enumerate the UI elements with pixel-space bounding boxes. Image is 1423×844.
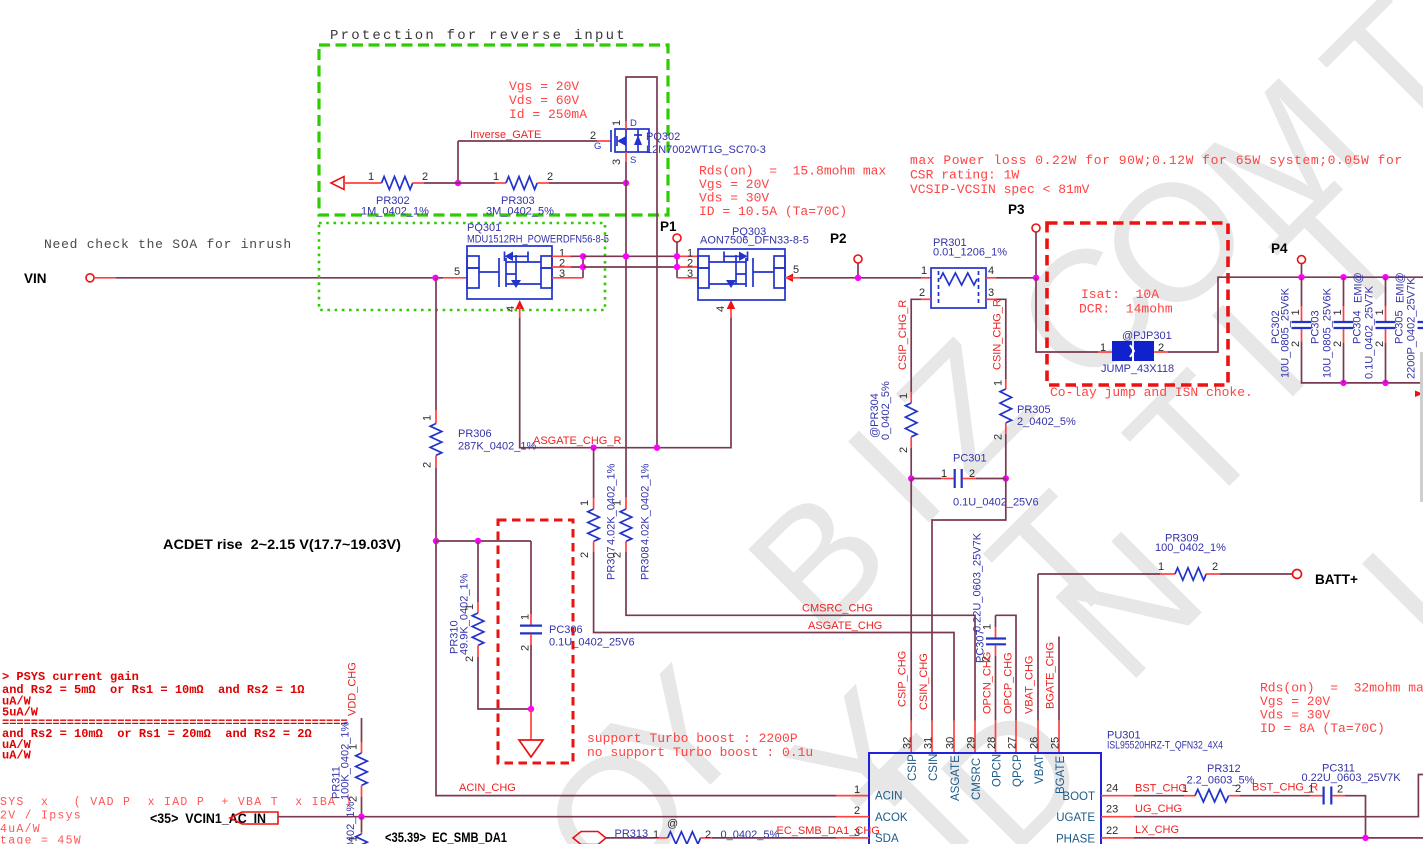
scrollbar remnant [1420, 352, 1423, 502]
wire ACIN_CHG [436, 541, 869, 796]
svg-text:2: 2 [919, 287, 925, 299]
svg-text:1: 1 [493, 171, 499, 183]
svg-text:UGATE: UGATE [1056, 812, 1095, 824]
svg-text:0.1U_0402_25V6: 0.1U_0402_25V6 [953, 497, 1039, 509]
svg-text:P4: P4 [1271, 241, 1288, 256]
svg-text:OPCN_CHG: OPCN_CHG [982, 652, 994, 714]
wire CSIN_CHG_R [986, 299, 1006, 379]
wire ACDET row [436, 540, 531, 542]
resistor R PR311 [331, 718, 368, 802]
svg-text:1: 1 [653, 829, 659, 841]
green dotted box PQ301 [319, 223, 605, 310]
wire BGATE_CHG [1058, 637, 1060, 754]
svg-text:PHASE: PHASE [1056, 833, 1095, 844]
svg-text:5: 5 [793, 264, 799, 276]
node junction PHASE [1362, 835, 1368, 841]
svg-text:24: 24 [1106, 783, 1118, 795]
svg-text:0.22U_0603_25V7K: 0.22U_0603_25V7K [972, 532, 984, 632]
capacitor C PC307 [972, 532, 1007, 753]
svg-text:Co-lay jump and ISN choke.: Co-lay jump and ISN choke. [1050, 385, 1253, 400]
svg-text:1: 1 [611, 120, 623, 126]
port EC_SMB_DA1 [385, 830, 606, 844]
capacitor C PC301 [911, 453, 1038, 509]
svg-text:VBAT: VBAT [1034, 755, 1046, 784]
svg-text:VBAT_CHG: VBAT_CHG [1024, 656, 1036, 714]
svg-text:ID = 8A (Ta=70C): ID = 8A (Ta=70C) [1260, 721, 1385, 736]
svg-text:2V / Ipsys: 2V / Ipsys [0, 810, 82, 823]
capacitor C PC302 [1270, 277, 1312, 378]
transistor Q PQ302 [590, 118, 766, 166]
svg-text:Id = 250mA: Id = 250mA [509, 107, 587, 122]
resistor R PR314 [336, 801, 368, 844]
wire ASGATE_CHG [594, 552, 954, 753]
resistor R PR303 [486, 171, 554, 218]
svg-text:no support Turbo boost : 0.1u: no support Turbo boost : 0.1u [587, 745, 813, 760]
svg-text:475K_0402_1%: 475K_0402_1% [345, 801, 357, 844]
capacitor C PC305 [1394, 272, 1423, 383]
svg-text:CSIP_CHG_R: CSIP_CHG_R [897, 300, 909, 370]
svg-text:1: 1 [854, 784, 860, 796]
svg-text:PC301: PC301 [953, 453, 987, 465]
port P2 [830, 231, 862, 278]
annotation psys formula block [0, 796, 353, 844]
annotation Vgs/Vds/Id PQ302 [509, 79, 587, 122]
svg-text:@: @ [667, 818, 678, 830]
svg-text:1: 1 [1332, 309, 1344, 315]
wire PQ302 source down [625, 152, 627, 497]
capacitor C PC304 [1352, 272, 1396, 383]
wire interfet rows [583, 256, 677, 267]
svg-text:2: 2 [547, 171, 553, 183]
svg-text:Vds = 60V: Vds = 60V [509, 93, 579, 108]
svg-text:22: 22 [1106, 825, 1118, 837]
svg-text:0.1U_0402_25V6: 0.1U_0402_25V6 [549, 637, 635, 649]
wire PR302 to PR303 [424, 182, 495, 184]
node junction P4 [1298, 274, 1304, 280]
svg-text:BST_CHG: BST_CHG [1135, 783, 1187, 795]
svg-text:CSIP_CHG: CSIP_CHG [897, 651, 909, 707]
resistor R PR309 [1038, 533, 1293, 581]
svg-text:Inverse_GATE: Inverse_GATE [470, 129, 541, 141]
svg-text:3: 3 [687, 268, 693, 280]
wire PR306 to ACDET node [435, 468, 437, 541]
resistor R PR302 [344, 171, 429, 218]
svg-text:2: 2 [422, 462, 434, 468]
svg-text:3: 3 [988, 287, 994, 299]
port P3 [1008, 202, 1040, 278]
svg-text:PR312: PR312 [1207, 763, 1241, 775]
node junction P3 [1033, 275, 1039, 281]
svg-text:2.2_0603_5%: 2.2_0603_5% [1187, 775, 1255, 787]
svg-text:2: 2 [1374, 341, 1386, 347]
svg-text:I: I [1327, 517, 1423, 680]
svg-text:and Rs2 = 10mΩ or Rs1 = 20mΩ: and Rs2 = 10mΩ or Rs1 = 20mΩ and Rs2 = 2… [2, 727, 312, 741]
svg-text:CMSRC: CMSRC [971, 758, 983, 800]
svg-text:QPCP: QPCP [1012, 754, 1024, 787]
svg-text:1: 1 [368, 171, 374, 183]
svg-text:MDU1512RH_POWERDFN56-8-5: MDU1512RH_POWERDFN56-8-5 [467, 234, 609, 246]
wire bottom rail [1302, 341, 1423, 383]
svg-text:OPCN: OPCN [992, 754, 1004, 787]
node junction GND [528, 706, 534, 712]
annotation turbo boost [587, 731, 813, 760]
port P4 [1271, 241, 1306, 277]
annotation Rds 32mohm [1260, 681, 1423, 737]
wire P3 to jumper [1036, 278, 1112, 352]
svg-text:32: 32 [902, 737, 914, 749]
svg-text:and Rs2 = 5mΩ or Rs1 = 10mΩ: and Rs2 = 5mΩ or Rs1 = 10mΩ and Rs2 = 1Ω [2, 683, 304, 697]
node junction PC303 top [1340, 274, 1346, 280]
svg-text:VIN: VIN [24, 271, 47, 286]
svg-text:ACIN: ACIN [875, 791, 902, 803]
wire PQ302 drain loop [626, 77, 657, 447]
svg-text:1: 1 [612, 500, 624, 506]
svg-text:tage = 45W: tage = 45W [0, 835, 82, 844]
svg-text:1: 1 [422, 415, 434, 421]
svg-text:29: 29 [966, 737, 978, 749]
svg-text:4: 4 [988, 265, 994, 277]
wire PQ301 drain pins tie [552, 256, 583, 278]
svg-text:CSIN_CHG_R: CSIN_CHG_R [992, 299, 1004, 370]
svg-text:VDD_CHG: VDD_CHG [347, 662, 359, 716]
svg-text:Isat: 10A: Isat: 10A [1081, 287, 1159, 302]
svg-text:0.01_1206_1%: 0.01_1206_1% [933, 247, 1007, 259]
svg-text:1: 1 [1374, 309, 1386, 315]
svg-text:VCSIP-VCSIN spec < 81mV: VCSIP-VCSIN spec < 81mV [910, 182, 1090, 197]
svg-text:ISL95520HRZ-T_QFN32_4X4: ISL95520HRZ-T_QFN32_4X4 [1107, 740, 1223, 752]
red dashed box PC306 [498, 520, 573, 763]
wire VBAT_CHG [1037, 574, 1039, 753]
svg-text:BGATE_CHG: BGATE_CHG [1045, 642, 1057, 709]
annotation Isat DCR [1079, 287, 1173, 317]
svg-text:3: 3 [611, 159, 623, 165]
svg-text:PC303: PC303 [1310, 310, 1322, 344]
svg-text:31: 31 [923, 737, 935, 749]
wire UG_CHG [1101, 775, 1423, 817]
svg-text:1: 1 [579, 500, 591, 506]
wire PR310 bottom [478, 657, 531, 709]
node junction PQ303 pin2 [674, 264, 680, 270]
svg-text:ACIN_CHG: ACIN_CHG [459, 782, 516, 794]
node junction PC304 bottom [1382, 380, 1388, 386]
wire P1 to PQ303 pins [677, 242, 698, 278]
svg-text:G: G [594, 141, 601, 152]
wire jumper to P4 rail [1154, 277, 1423, 352]
transistor Q PQ301 [454, 222, 609, 312]
wire ACOK row [278, 816, 869, 818]
svg-text:ID = 10.5A (Ta=70C): ID = 10.5A (Ta=70C) [699, 204, 847, 219]
svg-text:2: 2 [464, 656, 476, 662]
resistor R PR301 [919, 237, 1007, 308]
svg-text:DCR: 14mohm: DCR: 14mohm [1079, 302, 1173, 317]
svg-text:Need check the SOA for inrush: Need check the SOA for inrush [44, 237, 292, 252]
wire CSIN_CHG [932, 479, 1006, 754]
svg-text:P3: P3 [1008, 202, 1025, 217]
svg-text:PR305: PR305 [1017, 404, 1051, 416]
green dashed protection box [319, 45, 668, 215]
node junction ASGATE/PQ302 drain [654, 445, 660, 451]
svg-text:1: 1 [898, 393, 910, 399]
node junction PC301 pin1 [908, 475, 914, 481]
svg-text:L2N7002WT1G_SC70-3: L2N7002WT1G_SC70-3 [646, 144, 766, 156]
wire PR311 to ACOK row [361, 797, 363, 817]
svg-text:26: 26 [1029, 737, 1041, 749]
svg-text:LX_CHG: LX_CHG [1135, 824, 1179, 836]
svg-text:PC305: PC305 [1394, 310, 1406, 344]
svg-text:3M_0402_5%: 3M_0402_5% [486, 206, 554, 218]
svg-text:0.1U_0402_25V7K: 0.1U_0402_25V7K [1364, 285, 1376, 379]
jumper PJP301 [1100, 330, 1174, 375]
node junction VIN/PR306 [432, 275, 438, 281]
port BATT+ [1293, 570, 1358, 588]
port P1 [660, 219, 681, 242]
svg-text:PR308: PR308 [640, 546, 652, 580]
port VCIN1_AC_IN [150, 811, 278, 826]
svg-text:2: 2 [1332, 341, 1344, 347]
off-sheet arrow left [331, 177, 344, 190]
resistor R PR312 [1101, 763, 1310, 802]
svg-text:ACOK: ACOK [875, 812, 908, 824]
svg-text:S: S [630, 155, 636, 166]
svg-text:SYS x ( VAD P x IAD P + V: SYS x ( VAD P x IAD P + VBA T x IBA ) [0, 796, 353, 809]
svg-text:1: 1 [993, 380, 1005, 386]
svg-text:2: 2 [612, 552, 624, 558]
resistor R PR310 [449, 541, 484, 662]
resistor R PR304 [869, 381, 917, 453]
port VIN [24, 271, 94, 286]
svg-text:PR306: PR306 [458, 428, 492, 440]
red dashed box choke [1047, 223, 1228, 385]
svg-text:2_0402_5%: 2_0402_5% [1017, 416, 1076, 428]
svg-text:> PSYS current gain: > PSYS current gain [2, 670, 139, 684]
svg-text:2: 2 [1337, 784, 1343, 796]
svg-text:23: 23 [1106, 804, 1118, 816]
svg-text:support Turbo boost : 2200P: support Turbo boost : 2200P [587, 731, 798, 746]
svg-text:1: 1 [1100, 342, 1106, 354]
node junction PR302/PR303 [455, 180, 461, 186]
node junction PC304 top [1382, 274, 1388, 280]
svg-text:0.22U_0603_25V7K: 0.22U_0603_25V7K [1302, 772, 1402, 784]
transistor Q PQ303 [687, 226, 809, 312]
svg-text:25: 25 [1050, 737, 1062, 749]
svg-text:5: 5 [454, 266, 460, 278]
svg-text:28: 28 [986, 737, 998, 749]
svg-text:JUMP_43X118: JUMP_43X118 [1101, 363, 1174, 375]
capacitor C PC306 [520, 541, 635, 709]
svg-text:BATT+: BATT+ [1315, 572, 1358, 587]
svg-text:30: 30 [945, 737, 957, 749]
svg-text:ACDET rise 2~2.15 V(17.7~19.0: ACDET rise 2~2.15 V(17.7~19.03V) [163, 537, 401, 552]
node junction PQ303 pin1 [674, 253, 680, 259]
svg-text:<35.39> EC_SMB_DA1: <35.39> EC_SMB_DA1 [385, 830, 507, 844]
svg-text:P2: P2 [830, 231, 847, 246]
svg-text:CSIN: CSIN [928, 754, 940, 781]
node junction PC303 bottom [1340, 380, 1346, 386]
wire PQ303 pin5 to P2 [785, 274, 931, 283]
svg-text:1: 1 [941, 468, 947, 480]
svg-text:287K_0402_1%: 287K_0402_1% [458, 441, 537, 453]
resistor R PR308 [612, 463, 652, 580]
svg-text:2: 2 [579, 552, 591, 558]
capacitor C PC311 [1302, 763, 1402, 838]
svg-text:2: 2 [1212, 561, 1218, 573]
wire CSIP_CHG_R [911, 299, 931, 392]
svg-text:2200P_0402_25V7K: 2200P_0402_25V7K [1406, 277, 1418, 379]
svg-text:2: 2 [898, 447, 910, 453]
svg-text:2: 2 [520, 645, 532, 651]
svg-text:4.02K_0402_1%: 4.02K_0402_1% [640, 463, 652, 545]
node junction P2 [855, 275, 861, 281]
wire PR303 to PQ302 source column [549, 182, 626, 184]
capacitor C PC303 [1310, 277, 1354, 383]
svg-text:1: 1 [1308, 784, 1314, 796]
svg-text:CSIN_CHG: CSIN_CHG [918, 653, 930, 710]
svg-text:2: 2 [1290, 341, 1302, 347]
resistor R PR313 [606, 818, 869, 844]
svg-text:BGATE: BGATE [1055, 756, 1067, 794]
node junction PC301 pin2 [1003, 475, 1009, 481]
svg-text:10U_0805_25V6K: 10U_0805_25V6K [1280, 287, 1292, 378]
svg-text:1: 1 [520, 614, 532, 620]
svg-text:1: 1 [1158, 561, 1164, 573]
wire PR301 pin4 to P3 [986, 277, 1036, 279]
svg-text:27: 27 [1007, 737, 1019, 749]
svg-text:ASGATE: ASGATE [950, 755, 962, 801]
svg-text:uA/W: uA/W [2, 749, 32, 763]
svg-text:100K_0402_1%: 100K_0402_1% [340, 721, 352, 800]
svg-text:0_0402_5%: 0_0402_5% [880, 381, 892, 440]
svg-text:PR313: PR313 [615, 828, 649, 840]
wire VIN [94, 277, 467, 279]
svg-text:100_0402_1%: 100_0402_1% [1155, 542, 1226, 554]
svg-text:CMSRC_CHG: CMSRC_CHG [802, 603, 873, 615]
svg-text:PC306: PC306 [549, 624, 583, 636]
svg-text:CSIP: CSIP [907, 754, 919, 781]
svg-text:2: 2 [705, 829, 711, 841]
svg-text:CSR rating: 1W: CSR rating: 1W [910, 168, 1019, 183]
svg-text:1M_0402_1%: 1M_0402_1% [361, 206, 429, 218]
op-amp U PU301 [854, 730, 1223, 844]
wire CMSRC_CHG [626, 552, 975, 753]
svg-text:UG_CHG: UG_CHG [1135, 803, 1182, 815]
svg-text:PQ302: PQ302 [646, 131, 680, 143]
svg-text:Protection for reverse input: Protection for reverse input [330, 28, 627, 44]
svg-text:1: 1 [1290, 309, 1302, 315]
off-page arrow bottom rail [1415, 391, 1423, 398]
svg-text:@PJP301: @PJP301 [1122, 330, 1172, 342]
resistor R PR307 [579, 448, 618, 580]
annotation Rds PQ303 [699, 164, 886, 220]
svg-text:AON7506_DFN33-8-5: AON7506_DFN33-8-5 [700, 235, 809, 247]
node junction ACDET [433, 538, 439, 544]
svg-text:2: 2 [854, 805, 860, 817]
node junction PQ301 pin2 [580, 264, 586, 270]
wire Inverse_GATE [458, 141, 611, 183]
wire ASGATE_CHG_R [516, 300, 736, 448]
svg-text:PR307: PR307 [606, 546, 618, 580]
svg-text:max Power loss 0.22W for 90W;0: max Power loss 0.22W for 90W;0.12W for 6… [910, 153, 1403, 168]
svg-text:EC_SMB_DA1_CHG: EC_SMB_DA1_CHG [777, 825, 880, 837]
node junction PR311 [358, 814, 364, 820]
wire CSIP_CHG [910, 479, 912, 754]
svg-text:1: 1 [921, 265, 927, 277]
svg-text:4: 4 [505, 306, 517, 312]
svg-text:D: D [630, 118, 637, 129]
svg-text:2: 2 [993, 434, 1005, 440]
svg-text:ASGATE_CHG: ASGATE_CHG [808, 620, 882, 632]
annotation PSYS block [2, 670, 348, 763]
node junction PQ301 pin1 [580, 253, 586, 259]
node junction CMSRC tap [623, 253, 629, 259]
svg-text:10U_0805_25V6K: 10U_0805_25V6K [1322, 287, 1334, 378]
node junction PQ302 source [623, 180, 629, 186]
wire OPCP_CHG [996, 615, 1017, 753]
svg-text:2: 2 [969, 468, 975, 480]
svg-text:BOOT: BOOT [1062, 791, 1095, 803]
node junction PR310 top [475, 538, 481, 544]
annotation max power loss [910, 153, 1403, 197]
resistor R PR306 [422, 278, 537, 468]
wire PR305 to PC301 [1005, 434, 1007, 479]
svg-text:P1: P1 [660, 219, 677, 234]
svg-text:4: 4 [715, 306, 727, 312]
ground [519, 709, 543, 757]
node junction ASGATE/PR307 [590, 445, 596, 451]
svg-text:2: 2 [422, 171, 428, 183]
svg-text:49.9K_0402_1%: 49.9K_0402_1% [459, 573, 471, 655]
svg-text:PQ301: PQ301 [467, 222, 501, 234]
svg-text:ASGATE_CHG_R: ASGATE_CHG_R [533, 435, 621, 447]
svg-text:OPCP_CHG: OPCP_CHG [1003, 652, 1015, 714]
svg-text:Vgs = 20V: Vgs = 20V [509, 79, 579, 94]
wire PR304 to PC301 [910, 448, 912, 479]
svg-text:0_0402_5%: 0_0402_5% [721, 829, 780, 841]
wire LX_CHG [1101, 837, 1423, 839]
svg-text:PC304: PC304 [1352, 310, 1364, 344]
resistor R PR305 [993, 379, 1076, 440]
